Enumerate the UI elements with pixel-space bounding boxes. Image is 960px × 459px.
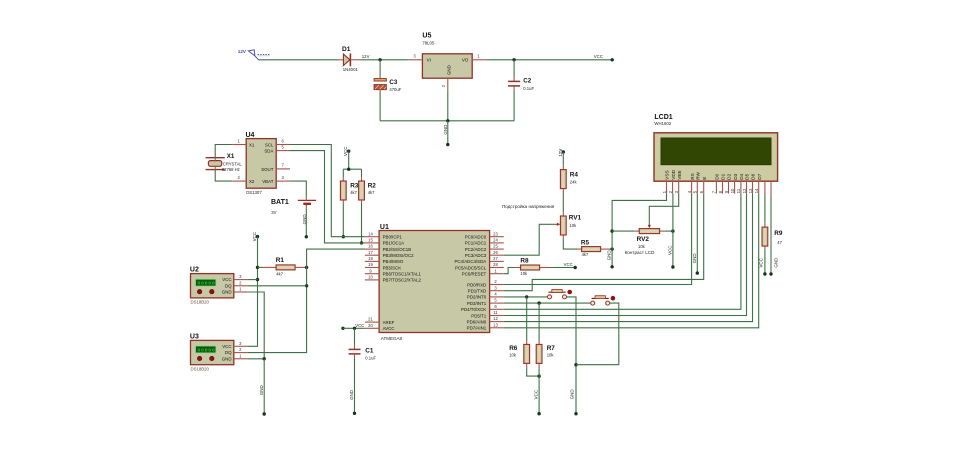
svg-text:AREF: AREF — [383, 320, 395, 325]
svg-text:11: 11 — [736, 188, 741, 193]
pin 28 of U1 — [490, 267, 504, 269]
svg-text:13: 13 — [748, 188, 753, 193]
wire button 2 to ground rail — [576, 303, 619, 365]
svg-text:PB4/MISO: PB4/MISO — [383, 259, 404, 264]
junction — [256, 266, 259, 269]
junction — [360, 241, 363, 244]
svg-text:X1: X1 — [249, 143, 255, 148]
svg-text:PB1/OC1A: PB1/OC1A — [383, 241, 405, 246]
wire SCL from U4 to PB0 — [290, 145, 365, 237]
wire LCD VSS to ground rail — [612, 194, 666, 267]
junction — [671, 229, 674, 232]
pin 3 of U3 (VCC) — [234, 345, 248, 347]
ground terminal below sensors — [259, 359, 266, 416]
svg-text:SOUT: SOUT — [261, 167, 274, 172]
pin 17 of U1 — [365, 254, 379, 256]
svg-text:GND: GND — [607, 250, 612, 261]
wire ground rail of power section — [380, 120, 514, 122]
node VCC right of R8 — [549, 262, 577, 269]
capacitor C2 0.1uF — [508, 60, 534, 121]
junction — [256, 278, 259, 281]
pin 15 of LCD1 (backlight anode) — [764, 181, 766, 195]
svg-text:VCC: VCC — [534, 389, 539, 399]
wire rail to RV2 left — [612, 230, 635, 232]
wire LCD D5 to PD5 — [504, 194, 747, 316]
wire crystal top to U4 X1 — [215, 145, 232, 158]
battery BAT1 3V — [271, 199, 316, 215]
ground terminal below U5 — [443, 121, 449, 147]
svg-text:47: 47 — [777, 240, 782, 245]
svg-text:U3: U3 — [190, 334, 199, 341]
pin 4 of U1 — [490, 296, 504, 298]
svg-text:U4: U4 — [246, 132, 255, 139]
wire R3 to PB0 line — [342, 204, 344, 237]
svg-text:PB7/TOSC2/XTAL2: PB7/TOSC2/XTAL2 — [383, 278, 422, 283]
pin 8 of LCD1 (D1) — [718, 173, 726, 193]
svg-text:D1: D1 — [721, 173, 726, 179]
svg-text:E: E — [702, 177, 707, 180]
VCC terminal below R9 — [759, 250, 767, 276]
wire U2 GND down to U3 GND — [248, 292, 265, 359]
pin 18 of U1 — [365, 260, 379, 262]
pin 1 of U4 (X1) — [232, 144, 246, 146]
svg-text:PB6/TOSC1/XTAL1: PB6/TOSC1/XTAL1 — [383, 272, 422, 277]
svg-text:R5: R5 — [581, 240, 590, 247]
node 12V terminal above R4 — [558, 149, 565, 157]
svg-text:SDA: SDA — [264, 149, 273, 154]
resistor R1 4k7 — [258, 257, 307, 276]
pin 16 of LCD1 (backlight cathode) — [770, 181, 772, 195]
svg-text:4k7: 4k7 — [368, 190, 375, 195]
VCC terminal below VDD — [668, 245, 675, 269]
wire LCD D6 to PD6 — [504, 194, 753, 322]
svg-text:VI: VI — [427, 58, 431, 63]
svg-text:Контраст LCD: Контраст LCD — [625, 250, 656, 255]
wire U4 VBAT to battery — [290, 181, 306, 197]
pin 1 of U3 (GND) — [234, 358, 248, 360]
wire R2 to PB1 line — [361, 204, 363, 243]
svg-text:VDD: VDD — [671, 169, 676, 180]
wire PD3 to button 2 — [504, 302, 591, 304]
svg-text:C3: C3 — [389, 79, 397, 86]
diode D1 1N4001 — [338, 46, 362, 72]
pin 2 of U2 (DQ) — [234, 285, 248, 287]
svg-text:C2: C2 — [523, 78, 531, 85]
resistor R9 47 backlight — [762, 196, 783, 251]
svg-text:GND: GND — [447, 65, 452, 75]
svg-text:23: 23 — [493, 231, 498, 236]
svg-text:R6: R6 — [509, 345, 518, 352]
ground terminal below buttons — [570, 389, 578, 416]
svg-text:10k: 10k — [520, 271, 528, 276]
svg-text:00000: 00000 — [198, 347, 216, 353]
microcontroller U1 ATMEGA8 — [379, 224, 490, 341]
svg-text:LCD1: LCD1 — [654, 114, 672, 121]
svg-text:R4: R4 — [570, 171, 579, 178]
svg-text:12V: 12V — [558, 149, 563, 157]
svg-text:PD2/INT0: PD2/INT0 — [467, 295, 487, 300]
svg-text:12: 12 — [493, 316, 498, 321]
push button switch 1 — [548, 290, 573, 299]
pin 4 of LCD1 (RS) — [687, 173, 695, 193]
svg-text:RV1: RV1 — [569, 215, 582, 222]
pin 27 of U1 — [490, 260, 504, 262]
svg-text:RW: RW — [696, 171, 701, 179]
svg-text:4k7: 4k7 — [582, 252, 589, 257]
pin 11 of U1 — [490, 315, 504, 317]
svg-text:32768 Hz: 32768 Hz — [222, 167, 240, 172]
pin 3 of LCD1 (VEE) — [674, 170, 682, 193]
svg-text:DS1307: DS1307 — [246, 190, 262, 195]
svg-text:GND: GND — [259, 384, 264, 395]
pin 10 of LCD1 (D3) — [730, 173, 738, 193]
svg-text:16: 16 — [368, 244, 373, 249]
wire LCD VDD down to VCC — [672, 194, 674, 267]
pin 6 of U4 (SCL) — [276, 144, 290, 146]
wire one-wire bus PB2 to sensors — [248, 249, 365, 353]
svg-text:10k: 10k — [638, 244, 646, 249]
junction — [525, 295, 528, 298]
svg-text:4k7: 4k7 — [276, 271, 283, 276]
junction — [305, 266, 308, 269]
svg-text:12V: 12V — [238, 49, 247, 54]
pin 13 of U1 — [490, 327, 504, 329]
pin 2 of U1 — [490, 284, 504, 286]
svg-text:DQ: DQ — [225, 283, 232, 288]
pin 3 of U2 (VCC) — [234, 279, 248, 281]
svg-text:D7: D7 — [757, 173, 762, 179]
junction — [263, 357, 266, 360]
svg-text:PD7/AIN1: PD7/AIN1 — [467, 326, 487, 331]
svg-text:PD3/INT1: PD3/INT1 — [467, 301, 487, 306]
svg-text:VCC: VCC — [564, 262, 573, 267]
svg-text:D4: D4 — [739, 173, 744, 179]
svg-text:19: 19 — [368, 262, 373, 267]
potentiometer RV2 10k contrast — [625, 223, 665, 255]
ground terminal below C1 — [349, 358, 356, 415]
wire LCD E to PD1 — [504, 194, 704, 291]
wire LCD RS to PD0 — [504, 194, 692, 285]
pin 9 of LCD1 (D2) — [724, 173, 732, 193]
svg-text:11: 11 — [493, 310, 498, 315]
junction — [305, 284, 308, 287]
svg-text:20: 20 — [368, 323, 373, 328]
svg-text:GND: GND — [692, 253, 697, 264]
svg-text:10: 10 — [730, 188, 735, 193]
svg-text:GND: GND — [222, 290, 232, 295]
pin 1 of U1 — [490, 273, 504, 275]
svg-text:14: 14 — [368, 231, 373, 236]
svg-text:21: 21 — [368, 317, 373, 322]
junction — [537, 374, 540, 377]
power input terminal 12V — [238, 49, 270, 60]
pin 6 of U1 — [490, 308, 504, 310]
wire LCD D4 to PD4 — [504, 194, 741, 310]
resistor R2 4k7 — [359, 169, 377, 204]
VCC terminal above R1 — [252, 231, 259, 241]
svg-text:AVCC: AVCC — [383, 326, 395, 331]
capacitor C3 470uF (electrolytic) — [374, 60, 402, 121]
pin 7 of U4 (SOUT) — [276, 168, 290, 170]
svg-text:10k: 10k — [509, 353, 517, 358]
svg-text:GND: GND — [302, 214, 307, 225]
crystal X1 32768 Hz — [206, 153, 243, 172]
svg-text:X1: X1 — [227, 153, 235, 160]
svg-text:PB2/SS/OC1B: PB2/SS/OC1B — [383, 247, 412, 252]
junction — [378, 58, 381, 61]
junction — [342, 235, 345, 238]
svg-text:VO: VO — [462, 58, 469, 63]
svg-text:78L05: 78L05 — [422, 40, 435, 45]
node VCC at AVCC — [341, 323, 364, 330]
svg-text:PD5/T1: PD5/T1 — [471, 313, 486, 318]
svg-text:VBAT: VBAT — [262, 179, 273, 184]
junction — [574, 363, 577, 366]
wire AVCC to VCC — [343, 327, 365, 329]
svg-text:25: 25 — [493, 244, 498, 249]
display LCD1 WH1602 — [654, 114, 778, 181]
svg-text:18: 18 — [368, 256, 373, 261]
RTC U4 DS1307 — [246, 132, 277, 195]
regulator U5 78L05 — [422, 33, 472, 79]
pin 20 of U1 (AVCC) — [365, 327, 379, 329]
junction — [353, 327, 356, 330]
svg-text:U1: U1 — [380, 224, 389, 231]
svg-text:GND: GND — [349, 389, 354, 400]
pin 1 of U5 (VO) — [472, 59, 487, 61]
pin 5 of U1 — [490, 302, 504, 304]
svg-text:14: 14 — [754, 188, 759, 193]
capacitor C1 0.1uF — [349, 328, 377, 360]
ground terminal below rail — [607, 250, 614, 269]
svg-text:VSS: VSS — [665, 170, 670, 179]
svg-text:R8: R8 — [520, 257, 529, 264]
pin 14 of U1 — [365, 236, 379, 238]
svg-text:26: 26 — [493, 250, 498, 255]
svg-text:X2: X2 — [249, 179, 255, 184]
junction — [537, 301, 540, 304]
svg-text:PD4/T0/XCK: PD4/T0/XCK — [461, 307, 486, 312]
resistor R5 4k7 — [578, 240, 613, 258]
pin 23 of U1 — [490, 236, 504, 238]
pin 21 of U1 (AREF) — [365, 321, 379, 323]
resistor R7 10k — [536, 303, 555, 368]
svg-text:D5: D5 — [745, 173, 750, 179]
wire — [362, 59, 409, 61]
svg-text:13: 13 — [493, 322, 498, 327]
wire RV2 wiper to LCD VEE — [649, 194, 678, 223]
wire LCD RW to ground — [696, 194, 698, 274]
svg-text:D6: D6 — [751, 173, 756, 179]
svg-text:0.1uF: 0.1uF — [365, 356, 376, 361]
wire PD2 to button 1 — [504, 296, 548, 298]
svg-text:C1: C1 — [365, 348, 374, 355]
svg-text:R7: R7 — [547, 345, 556, 352]
svg-text:0.1uF: 0.1uF — [523, 86, 534, 91]
pin 15 of U1 — [365, 242, 379, 244]
svg-text:VCC: VCC — [759, 257, 764, 267]
svg-text:PB0/ICP1: PB0/ICP1 — [383, 235, 403, 240]
svg-text:VCC: VCC — [222, 344, 231, 349]
pin 2 of LCD1 (VDD) — [668, 169, 676, 193]
resistor R3 4k7 — [340, 169, 358, 204]
pin 5 of LCD1 (RW) — [693, 171, 701, 193]
svg-text:470uF: 470uF — [389, 87, 401, 92]
svg-text:GND: GND — [570, 389, 575, 400]
svg-text:17: 17 — [368, 250, 373, 255]
wire VCC rail down to U3 VCC — [248, 237, 258, 347]
svg-text:PC3/ADC3: PC3/ADC3 — [465, 253, 487, 258]
svg-text:R9: R9 — [774, 230, 783, 237]
svg-text:D3: D3 — [733, 173, 738, 179]
svg-text:PD6/AIN0: PD6/AIN0 — [467, 319, 487, 324]
pin 12 of LCD1 (D5) — [742, 173, 750, 193]
svg-text:Подстройка напряжения: Подстройка напряжения — [502, 203, 555, 209]
svg-text:10k: 10k — [547, 353, 555, 358]
wire PC6/RESET to R8 — [504, 268, 517, 274]
push button switch 2 — [591, 296, 616, 305]
pin 25 of U1 — [490, 248, 504, 250]
wire R6 R7 bottoms joined — [527, 368, 539, 376]
pin 9 of U1 — [365, 273, 379, 275]
pin 3 of U5 (VI) — [409, 59, 423, 61]
svg-text:R2: R2 — [368, 183, 377, 190]
svg-text:D2: D2 — [727, 173, 732, 179]
svg-text:D1: D1 — [342, 46, 351, 53]
svg-text:DQ: DQ — [225, 350, 232, 355]
svg-text:GND: GND — [443, 124, 448, 135]
pin 2 of U4 (X2) — [232, 180, 246, 182]
svg-text:VCC: VCC — [222, 277, 231, 282]
pin 19 of U1 — [365, 267, 379, 269]
svg-text:PC2/ADC2: PC2/ADC2 — [465, 247, 487, 252]
svg-text:3V: 3V — [271, 210, 276, 215]
wire RV1 wiper to PC3 — [504, 224, 555, 255]
svg-text:1N4001: 1N4001 — [343, 67, 359, 72]
wire SDA from U4 to PB1 — [290, 151, 365, 243]
wire RV2 right to VDD line — [664, 230, 673, 232]
svg-text:4k7: 4k7 — [350, 190, 357, 195]
VCC terminal above R3 R2 — [343, 146, 350, 156]
svg-text:WH1602: WH1602 — [654, 121, 671, 126]
pin 14 of LCD1 (D7) — [754, 173, 762, 193]
svg-text:PC4/ADC4/SDA: PC4/ADC4/SDA — [454, 259, 486, 264]
pin 10 of U1 — [365, 279, 379, 281]
svg-text:VCC: VCC — [668, 245, 673, 255]
pin 13 of LCD1 (D6) — [748, 173, 756, 193]
svg-text:VCC: VCC — [355, 323, 364, 328]
svg-text:PD0/RXD: PD0/RXD — [467, 282, 486, 287]
temperature sensor U2 DS18B20 — [190, 267, 234, 305]
junction — [512, 58, 515, 61]
pin 11 of LCD1 (D4) — [736, 173, 744, 193]
pin 1 of U2 (GND) — [234, 291, 248, 293]
svg-text:PC6/RESET: PC6/RESET — [462, 272, 487, 277]
svg-text:R3: R3 — [350, 183, 359, 190]
svg-text:U5: U5 — [422, 33, 431, 40]
wire LCD D7 to PD7 — [504, 194, 759, 328]
temperature sensor U3 DS18B20 — [190, 334, 234, 372]
pin 5 of U4 (SDA) — [276, 150, 290, 152]
ground terminal below BAT1 — [302, 205, 308, 239]
svg-text:PB5/SCK: PB5/SCK — [383, 265, 402, 270]
svg-text:RS: RS — [690, 173, 695, 180]
pin 16 of U1 — [365, 248, 379, 250]
svg-text:RV2: RV2 — [637, 236, 650, 243]
junction — [610, 247, 613, 250]
wire R4 to RV1 — [562, 193, 564, 213]
svg-text:10: 10 — [368, 275, 373, 280]
svg-text:R1: R1 — [276, 257, 285, 264]
ground terminal below RW — [692, 253, 699, 275]
pin 7 of LCD1 (D0) — [712, 173, 720, 193]
svg-text:VCC: VCC — [343, 146, 348, 156]
pin 1 of LCD1 (VSS) — [662, 170, 670, 193]
junction — [610, 229, 613, 232]
svg-text:00000: 00000 — [198, 281, 216, 287]
junction — [347, 168, 350, 171]
svg-text:GND: GND — [773, 257, 778, 268]
resistor R4 24k — [560, 152, 578, 193]
pin 2 of U5 (GND) — [447, 78, 449, 91]
pin 3 of U1 — [490, 290, 504, 292]
svg-text:12: 12 — [742, 188, 747, 193]
svg-text:U2: U2 — [190, 267, 199, 274]
wire button 1 to ground rail — [567, 297, 577, 414]
potentiometer RV1 10k — [555, 212, 582, 239]
svg-text:VCC: VCC — [252, 231, 257, 241]
wire crystal bottom to U4 X2 — [215, 170, 232, 182]
svg-text:DS18B20: DS18B20 — [191, 300, 210, 305]
svg-text:D0: D0 — [715, 173, 720, 179]
wire VO to VCC — [487, 59, 612, 61]
svg-text:SCL: SCL — [265, 143, 274, 148]
svg-text:PB3/MOSI/OC2: PB3/MOSI/OC2 — [383, 253, 415, 258]
wire VCC to R3 R2 tops — [348, 151, 350, 169]
svg-text:BAT1: BAT1 — [271, 199, 289, 206]
svg-text:12V: 12V — [362, 54, 370, 59]
wire — [259, 59, 339, 61]
svg-text:DS18B20: DS18B20 — [191, 367, 210, 372]
wire U2 DQ to bus — [248, 285, 307, 287]
svg-text:15: 15 — [368, 238, 373, 243]
svg-text:PD1/TXD: PD1/TXD — [468, 289, 487, 294]
wire RV1 bottom to R5 — [563, 239, 577, 249]
svg-text:ATMEGA8: ATMEGA8 — [381, 336, 403, 341]
wire U5 GND down — [447, 91, 449, 121]
svg-text:PC0/ADC0: PC0/ADC0 — [465, 235, 487, 240]
resistor R8 10k — [516, 257, 548, 276]
pin 2 of U3 (DQ) — [234, 352, 248, 354]
svg-text:24: 24 — [493, 238, 498, 243]
wire U2 VCC to rail — [248, 279, 258, 281]
ground terminal below LCD pin 16 — [769, 196, 778, 276]
svg-text:10k: 10k — [569, 223, 577, 228]
svg-text:VCC: VCC — [594, 54, 603, 59]
svg-text:PC5/ADC5/SCL: PC5/ADC5/SCL — [455, 265, 487, 270]
svg-text:PC1/ADC1: PC1/ADC1 — [465, 241, 487, 246]
resistor R6 10k — [509, 297, 529, 369]
pin 26 of U1 — [490, 254, 504, 256]
pin 3 of U4 (VBAT) — [276, 180, 290, 182]
svg-text:27: 27 — [493, 256, 498, 261]
svg-text:28: 28 — [493, 262, 498, 267]
pin 12 of U1 — [490, 321, 504, 323]
svg-text:GND: GND — [222, 356, 232, 361]
svg-text:24k: 24k — [570, 179, 578, 184]
VCC terminal below R6 R7 — [534, 368, 541, 415]
junction — [446, 119, 449, 122]
